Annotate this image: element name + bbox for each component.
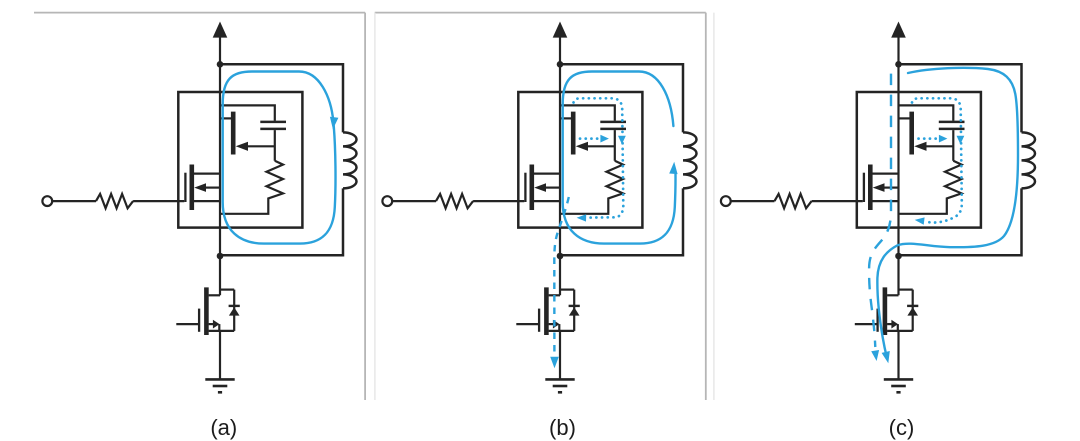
M1c body arrow — [873, 183, 885, 192]
M1a channel bar — [190, 165, 195, 211]
dashed path arrow (panel c) — [871, 350, 879, 361]
wire: R1c to M1c gate — [812, 200, 863, 202]
commutation current loop to ground (panel c) — [877, 68, 1018, 357]
body diode D2c — [912, 290, 914, 331]
loop current arrow (panel a) — [330, 117, 339, 129]
loop current arrow to ground (panel c) — [882, 351, 890, 363]
resistor R1a — [96, 194, 133, 208]
M1b source stub — [534, 200, 560, 202]
dotted loop down arrow (panel c) — [957, 136, 965, 145]
M2c source stub — [887, 330, 913, 332]
capacitor C1c — [939, 121, 965, 124]
wire: rail tee to D2b — [560, 289, 574, 291]
wire: main drain rail (panel c) — [897, 64, 899, 295]
MOSFET M1c gate bar — [863, 173, 865, 202]
input terminal (panel c) — [721, 196, 731, 206]
ground (panel c) — [884, 378, 913, 381]
Q1c gate arrow — [914, 142, 926, 151]
wire: M2c source to ground — [897, 331, 899, 379]
body diode D2a — [233, 290, 235, 331]
M2a body arrow — [209, 323, 213, 325]
GaN HEMT Q1b channel bar — [571, 112, 576, 155]
Q1b drain stub — [560, 117, 571, 119]
M2b body arrow — [549, 323, 553, 325]
dotted channel current arrow (panel c) — [919, 137, 939, 140]
MOSFET M1a gate bar — [184, 173, 186, 202]
wire: main drain rail (panel b) — [559, 64, 561, 295]
ground (panel a) — [205, 378, 234, 381]
wire: C1c to R2c — [952, 130, 954, 161]
wire: M2a source to ground — [219, 331, 221, 379]
input terminal (panel a) — [42, 196, 52, 206]
M1b body arrow — [534, 183, 546, 192]
dotted channel current arrow (panel b) — [580, 137, 600, 140]
MOSFET M1b gate bar — [524, 173, 526, 202]
inductor L1b — [683, 132, 697, 188]
inductor L1a — [343, 132, 357, 188]
wire: rail to C1a — [220, 105, 275, 120]
M1a body arrow — [194, 183, 206, 192]
M2c drain stub — [887, 294, 898, 296]
M1b channel bar — [529, 165, 534, 211]
M2c channel bar — [883, 287, 888, 335]
resistor R2b and wire to rail — [560, 161, 623, 214]
commutation current loop (panel b) — [563, 72, 676, 244]
M2c body arrow — [887, 323, 891, 325]
dashed rail current path (panel c) — [869, 74, 891, 347]
node N2 junction dot (panel c) — [895, 253, 902, 260]
wire: rail to C1c — [899, 105, 954, 120]
wire: main drain rail (panel a) — [219, 64, 221, 295]
body diode D2b — [573, 290, 575, 331]
M2a gate stub — [176, 323, 198, 325]
Q1c drain stub — [899, 117, 910, 119]
resistor R2c and wire to rail — [899, 161, 962, 214]
module box (panel a) — [178, 92, 302, 228]
svg-text:(c): (c) — [889, 415, 915, 440]
inductor L1c — [1022, 132, 1036, 188]
module box (panel b) — [518, 92, 642, 228]
ground (panel b) — [545, 378, 574, 381]
wire: rail to C1b — [560, 105, 615, 120]
M1c drain stub — [873, 173, 899, 175]
node N2 junction dot (panel b) — [557, 253, 564, 260]
node N2 junction dot (panel a) — [217, 253, 224, 260]
node N1 junction dot (panel b) — [557, 61, 564, 68]
wire: C1a to R2a — [274, 130, 276, 161]
dashed source current path to ground (panel b) — [554, 197, 569, 355]
dotted loop left arrow (panel c) — [915, 217, 925, 224]
capacitor C1b — [600, 121, 626, 124]
M2a drain stub — [209, 294, 220, 296]
Q1a gate arrow — [236, 142, 248, 151]
dotted loop left arrow (panel b) — [577, 214, 587, 221]
wire: R1b to M1b gate — [473, 200, 524, 202]
dashed path arrow (panel b) — [550, 357, 559, 369]
wire: terminal to R1b — [392, 200, 436, 202]
wire: R1a to M1a gate — [133, 200, 184, 202]
M2c gate stub — [855, 323, 877, 325]
svg-text:(a): (a) — [210, 415, 237, 440]
module box (panel c) — [857, 92, 981, 228]
M2b drain stub — [549, 294, 560, 296]
supply rail arrow (panel b) — [553, 22, 568, 38]
resistor R1b — [436, 194, 473, 208]
GaN HEMT Q1c channel bar — [909, 112, 914, 155]
svg-text:(b): (b) — [549, 415, 576, 440]
capacitor C1a — [260, 121, 286, 124]
wire: M2b source to ground — [559, 331, 561, 379]
resistor R1c — [775, 194, 812, 208]
supply rail arrow (panel c) — [891, 22, 906, 38]
M1a drain stub — [194, 173, 220, 175]
M1c source stub — [873, 200, 899, 202]
wire: terminal to R1a — [52, 200, 96, 202]
M2a source stub — [209, 330, 235, 332]
MOSFET M2c gate bar — [876, 309, 878, 332]
M2b gate stub — [516, 323, 538, 325]
dotted loop down arrow (panel b) — [618, 136, 626, 145]
resistor R2a and wire to rail — [220, 161, 283, 214]
GaN HEMT Q1a channel bar — [231, 112, 236, 155]
MOSFET M2b gate bar — [538, 309, 540, 332]
M2b source stub — [549, 330, 575, 332]
dotted Cgd displacement current loop (panel b) — [574, 98, 624, 217]
wire: rail tee to D2c — [899, 289, 913, 291]
M2a channel bar — [204, 287, 209, 335]
loop current arrow (panel b) — [669, 162, 677, 174]
wire: inductor branch (panel c) — [899, 64, 1022, 255]
commutation current loop (panel a) — [223, 72, 336, 244]
dotted Cgd displacement current loop (panel c) — [912, 98, 962, 222]
wire: rail tee to D2a — [220, 289, 234, 291]
Q1b gate arrow — [576, 142, 588, 151]
M1a source stub — [194, 200, 220, 202]
MOSFET M2a gate bar — [198, 309, 200, 332]
Q1a drain stub — [220, 117, 231, 119]
wire: terminal to R1c — [731, 200, 775, 202]
M1b drain stub — [534, 173, 560, 175]
M1c channel bar — [868, 165, 873, 211]
wire: inductor branch (panel a) — [220, 64, 343, 255]
node N1 junction dot (panel c) — [895, 61, 902, 68]
M2b channel bar — [544, 287, 549, 335]
wire: inductor branch (panel b) — [560, 64, 683, 255]
node N1 junction dot (panel a) — [217, 61, 224, 68]
wire: C1b to R2b — [614, 130, 616, 161]
supply rail arrow (panel a) — [213, 22, 228, 38]
input terminal (panel b) — [382, 196, 392, 206]
